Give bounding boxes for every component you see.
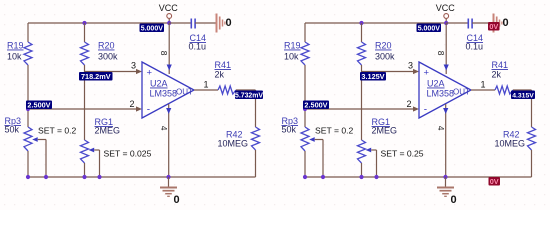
wire output pin 1 left [194, 89, 218, 91]
probe 2.500V right [303, 100, 329, 109]
junction bottom RG1 wiper right [374, 175, 378, 179]
wire output column right [531, 90, 533, 127]
wire top rail right [305, 22, 446, 24]
svg-text:R41: R41 [492, 60, 509, 70]
svg-text:U2A: U2A [427, 79, 445, 89]
svg-text:OUT: OUT [453, 88, 470, 97]
svg-text:-: - [424, 105, 427, 116]
wire R20 bottom right [361, 65, 363, 72]
svg-text:R20: R20 [98, 41, 115, 51]
probe Vplus right [360, 72, 386, 81]
VCC power port left [159, 3, 179, 18]
svg-text:0: 0 [226, 17, 232, 29]
svg-text:3.125V: 3.125V [361, 72, 384, 81]
wire noninverting input right [362, 69, 420, 74]
wire RG1 feed right [361, 72, 363, 141]
svg-text:0: 0 [451, 194, 457, 206]
wire Rp3 bottom right [304, 151, 306, 177]
wire RG1 bottom right [361, 163, 363, 177]
svg-text:OUT: OUT [176, 88, 193, 97]
svg-text:718.2mV: 718.2mV [81, 72, 111, 81]
wire R19 top right [304, 23, 306, 42]
wire R41 to node left [236, 89, 256, 91]
svg-text:2MEG: 2MEG [95, 126, 121, 136]
probe Vplus left [79, 72, 113, 81]
probe Vout right [511, 91, 535, 100]
svg-text:0: 0 [503, 17, 509, 29]
svg-text:300k: 300k [375, 52, 395, 62]
wire output column left [255, 90, 257, 127]
wire RG1 wiper left [94, 150, 99, 177]
potentiometer Rp3 left [5, 116, 38, 151]
svg-text:SET = 0.025: SET = 0.025 [104, 149, 152, 159]
junction top rail R20 left [82, 21, 86, 25]
wire R20 bottom left [84, 65, 86, 72]
wire R20 top left [84, 23, 86, 42]
svg-text:0: 0 [174, 194, 180, 206]
wire R19 top left [27, 23, 29, 42]
op-amp U2A right [419, 62, 471, 118]
svg-text:0.1u: 0.1u [189, 42, 207, 52]
svg-text:8: 8 [159, 51, 169, 56]
ground 0 top right [494, 14, 509, 33]
svg-text:10k: 10k [7, 52, 22, 62]
probe 5.000V left [140, 24, 165, 33]
wire noninverting input left [85, 69, 143, 74]
resistor R42 left [218, 127, 260, 150]
svg-text:U2A: U2A [150, 79, 168, 89]
resistor R42 right [495, 127, 536, 150]
svg-text:8: 8 [436, 51, 446, 56]
svg-text:-: - [147, 105, 150, 116]
resistor R19 left [7, 41, 32, 66]
svg-text:SET = 0.25: SET = 0.25 [381, 149, 424, 159]
svg-text:+: + [424, 68, 430, 79]
junction bottom Rp3 wiper left [44, 175, 48, 179]
svg-text:2: 2 [407, 99, 412, 109]
svg-text:4: 4 [159, 126, 169, 131]
wire to C14 right [446, 22, 468, 24]
svg-text:2.500V: 2.500V [304, 100, 327, 109]
wire VCC stub right [445, 19, 447, 24]
VCC power port right [436, 3, 456, 18]
probe 0V top right [488, 22, 500, 31]
probe 2.500V left [26, 100, 52, 109]
wire R42 bottom left [255, 150, 257, 177]
wire R19 to Rp3 right [304, 65, 306, 127]
wire bottom rail right [305, 176, 532, 178]
wire power pin 4 left [159, 104, 171, 177]
junction bottom RG1 left [82, 175, 86, 179]
svg-text:VCC: VCC [436, 3, 456, 13]
svg-text:300k: 300k [98, 52, 118, 62]
svg-text:2: 2 [130, 99, 135, 109]
junction bottom Rp3 right [303, 175, 307, 179]
ground 0 bottom left [160, 177, 180, 206]
junction bottom RG1 right [359, 175, 363, 179]
pin 1 label right [481, 80, 486, 90]
svg-text:LM358: LM358 [427, 89, 455, 99]
svg-text:3: 3 [408, 61, 413, 71]
label SET 0.025 left [104, 149, 152, 159]
junction bottom Rp3 wiper right [321, 175, 325, 179]
resistor R20 right [358, 41, 396, 66]
svg-text:1: 1 [204, 80, 209, 90]
svg-text:3: 3 [131, 61, 136, 71]
ground 0 bottom right [437, 177, 457, 206]
svg-text:2MEG: 2MEG [372, 126, 398, 136]
pin 3 label right [408, 61, 413, 71]
wire top rail left [28, 22, 169, 24]
resistor R20 left [81, 41, 119, 66]
wire inverting input right [305, 106, 419, 111]
svg-text:+: + [147, 68, 153, 79]
probe 0V bottom right [489, 177, 501, 186]
wire output pin 1 right [471, 89, 495, 91]
wire C14 to ground right [472, 22, 493, 24]
junction bottom Rp3 left [26, 175, 30, 179]
svg-text:2k: 2k [215, 70, 225, 80]
resistor R41 right [492, 60, 514, 94]
potentiometer RG1 left [81, 117, 121, 163]
op-amp U2A left [142, 62, 194, 118]
svg-text:R19: R19 [284, 41, 301, 51]
svg-text:5.000V: 5.000V [141, 25, 164, 32]
wire bottom rail left [28, 176, 256, 178]
svg-text:50k: 50k [5, 125, 20, 135]
wire R42 bottom right [531, 150, 533, 177]
ground 0 top left [217, 14, 232, 33]
svg-text:10MEG: 10MEG [218, 139, 249, 149]
pin 1 label left [204, 80, 209, 90]
svg-text:VCC: VCC [159, 3, 179, 13]
junction inverting node right [303, 107, 307, 111]
svg-text:10k: 10k [284, 52, 299, 62]
wire RG1 feed left [84, 72, 86, 141]
wire R41 to node right [513, 89, 532, 91]
wire Rp3 bottom left [27, 151, 29, 177]
wire R19 to Rp3 left [27, 65, 29, 127]
svg-text:2k: 2k [492, 70, 502, 80]
junction inverting node left [26, 107, 30, 111]
pin 2 label left [130, 99, 135, 109]
svg-text:0V: 0V [490, 177, 499, 186]
capacitor C14 right [466, 19, 484, 52]
junction bottom gnd left [166, 175, 170, 179]
svg-text:4: 4 [436, 126, 446, 131]
svg-text:5.000V: 5.000V [418, 25, 441, 32]
svg-text:10MEG: 10MEG [495, 139, 526, 149]
svg-text:4.315V: 4.315V [512, 92, 534, 99]
junction bottom RG1 wiper left [97, 175, 101, 179]
svg-text:5.732mV: 5.732mV [235, 92, 263, 99]
svg-text:R41: R41 [215, 60, 232, 70]
junction top rail R20 right [359, 21, 363, 25]
label SET 0.25 right [381, 149, 424, 159]
wire RG1 bottom left [84, 163, 86, 177]
potentiometer RG1 right [358, 117, 398, 163]
wire Rp3 wiper right [315, 140, 323, 178]
svg-text:0.1u: 0.1u [466, 42, 484, 52]
wire power pin 8 left [159, 23, 172, 74]
wire to C14 left [169, 22, 191, 24]
capacitor C14 left [189, 19, 207, 52]
svg-text:SET = 0.2: SET = 0.2 [315, 126, 354, 136]
svg-text:1: 1 [481, 80, 486, 90]
svg-text:R19: R19 [7, 41, 24, 51]
pin 2 label right [407, 99, 412, 109]
wire C14 to ground left [195, 22, 216, 24]
svg-text:0V: 0V [489, 22, 498, 31]
wire power pin 8 right [436, 23, 449, 74]
wire Rp3 wiper left [38, 140, 46, 178]
svg-text:R20: R20 [375, 41, 392, 51]
resistor R41 left [215, 60, 237, 94]
svg-text:SET = 0.2: SET = 0.2 [38, 126, 77, 136]
junction top rail VCC left [167, 21, 171, 25]
probe 5.000V right [417, 24, 442, 33]
wire RG1 wiper right [371, 150, 376, 177]
junction top rail VCC right [444, 21, 448, 25]
label SET 0.2 left [38, 126, 77, 136]
svg-text:LM358: LM358 [150, 89, 178, 99]
svg-text:50k: 50k [282, 125, 297, 135]
svg-text:2.500V: 2.500V [27, 100, 50, 109]
junction bottom gnd right [443, 175, 447, 179]
resistor R19 right [284, 41, 309, 66]
potentiometer Rp3 right [282, 116, 315, 151]
wire power pin 4 right [436, 104, 448, 177]
pin 3 label left [131, 61, 136, 71]
wire R20 top right [361, 23, 363, 42]
wire inverting input left [28, 106, 142, 111]
probe Vout left [235, 91, 263, 100]
wire VCC stub left [168, 19, 170, 24]
label SET 0.2 right [315, 126, 354, 136]
